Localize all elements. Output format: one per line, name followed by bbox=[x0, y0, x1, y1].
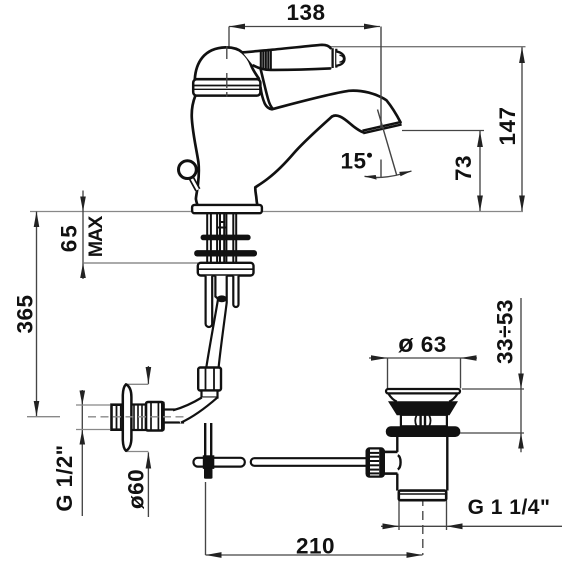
svg-text:G 1/2": G 1/2" bbox=[52, 444, 77, 511]
svg-text:138: 138 bbox=[286, 0, 325, 25]
svg-text:65: 65 bbox=[57, 223, 82, 252]
svg-text:147: 147 bbox=[495, 106, 520, 145]
svg-text:33÷53: 33÷53 bbox=[493, 299, 518, 364]
svg-text:15: 15 bbox=[340, 149, 366, 174]
svg-text:ø 63: ø 63 bbox=[398, 330, 447, 358]
svg-text:365: 365 bbox=[12, 294, 37, 333]
svg-text:MAX: MAX bbox=[85, 216, 107, 257]
svg-text:73: 73 bbox=[451, 155, 476, 181]
svg-text:210: 210 bbox=[296, 534, 335, 559]
svg-text:G 1 1/4": G 1 1/4" bbox=[468, 496, 551, 519]
svg-text:ø60: ø60 bbox=[123, 469, 148, 509]
